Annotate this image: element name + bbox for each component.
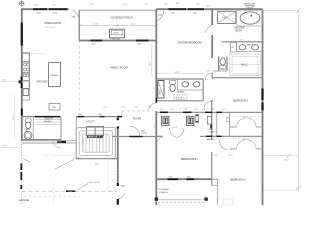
svg-text:11'-6": 11'-6"	[175, 72, 180, 74]
svg-text:2'-8": 2'-8"	[211, 109, 215, 111]
svg-text:+: +	[153, 62, 154, 64]
bath sink 1	[182, 82, 189, 87]
svg-text:BATH 2: BATH 2	[207, 138, 215, 141]
garage door dashed line	[22, 190, 117, 192]
kitchen dw box	[23, 89, 29, 96]
svg-text:8'-0": 8'-0"	[2, 80, 6, 82]
svg-text:5'-0": 5'-0"	[135, 106, 139, 108]
svg-text:WALK-IN: WALK-IN	[44, 120, 52, 123]
svg-text:COVERED PORCH: COVERED PORCH	[111, 17, 133, 20]
FIXTURES	[18, 0, 262, 205]
stair outer	[76, 128, 115, 159]
wall stub bedroom4 nw	[156, 135, 163, 137]
shower box	[218, 11, 236, 23]
bath2 inner box	[227, 118, 230, 122]
master vanity counter	[237, 42, 263, 52]
wire bath east wall	[202, 79, 204, 101]
window kitchen left 2	[21, 83, 23, 88]
closetB door arc left	[236, 139, 245, 149]
garage firewall door header	[57, 141, 66, 143]
powder door arc	[53, 140, 61, 148]
garage corner leader	[24, 159, 31, 163]
svg-text:CLOSET: CLOSET	[208, 131, 215, 133]
bath linen cabinet	[158, 81, 164, 99]
wire foyer south wall	[113, 136, 157, 138]
wire bath2 room east wall	[229, 112, 231, 136]
svg-text:ISLAND: ISLAND	[51, 74, 59, 77]
master bedroom entry door arc	[157, 11, 164, 22]
svg-text:UTILITY: UTILITY	[86, 120, 95, 123]
svg-text:2'-8": 2'-8"	[195, 109, 199, 111]
wire left exterior wall	[21, 8, 23, 141]
svg-text:2'-8": 2'-8"	[222, 109, 226, 111]
svg-text:3050: 3050	[171, 12, 175, 14]
svg-text:2868: 2868	[158, 14, 162, 16]
wire wc south wall	[213, 70, 227, 72]
garage wall bottom dark tick	[20, 185, 22, 189]
svg-text:FOYER: FOYER	[133, 118, 142, 121]
wire wc west wall	[218, 57, 220, 72]
foyer west stub	[121, 111, 123, 117]
foyer door arc	[130, 126, 140, 136]
wire powder south wall	[22, 139, 61, 141]
door arc hall to family room	[149, 103, 157, 111]
svg-text:5068: 5068	[58, 142, 62, 144]
DARK SEGMENTS (windows/door headers)	[21, 9, 262, 204]
dim line left garage horizontal	[0, 147, 21, 149]
svg-text:3050: 3050	[138, 44, 142, 46]
wire porch east edge	[212, 178, 218, 180]
wire garage left wall	[20, 141, 22, 205]
svg-text:3050: 3050	[187, 176, 191, 178]
garage dashed line 2	[24, 195, 80, 197]
wire right exterior wall	[262, 9, 264, 205]
wall closetB front left	[230, 148, 237, 150]
wire porch east vertical	[217, 179, 219, 205]
cased opening jambs hall	[196, 115, 199, 123]
dim line bath top	[157, 73, 203, 75]
porch post right	[204, 197, 207, 200]
tub faucet dot	[250, 15, 252, 17]
closet arcs bedroom4 right	[177, 128, 184, 137]
wire bath south wall	[156, 100, 203, 102]
svg-text:SHWR: SHWR	[222, 18, 228, 20]
wire porch roof edge	[79, 9, 157, 11]
door header hall wall 2	[217, 111, 223, 113]
svg-text:9'-0": 9'-0"	[145, 4, 149, 6]
kitchen dining soffit dashed	[22, 53, 45, 55]
svg-text:24'-8": 24'-8"	[123, 4, 128, 6]
porch steps dashed	[158, 201, 204, 203]
svg-text:DOOR: DOOR	[142, 133, 148, 135]
svg-text:WASH DRY: WASH DRY	[88, 136, 98, 139]
window family north 1	[91, 40, 103, 42]
master bath door arc	[205, 25, 213, 33]
door jamb garage door bottom	[117, 199, 119, 205]
svg-text:16070 OH DR: 16070 OH DR	[89, 182, 101, 184]
svg-text:KITCHEN: KITCHEN	[37, 81, 48, 84]
window family north 2	[136, 40, 149, 42]
svg-text:6'-0": 6'-0"	[243, 117, 247, 119]
wire utility north wall	[76, 116, 122, 118]
svg-text:5'-6": 5'-6"	[206, 70, 210, 72]
wire garage east wall lower	[117, 199, 119, 205]
WALLS	[21, 8, 263, 205]
door header hall to foyer	[155, 98, 157, 103]
svg-text:2868: 2868	[78, 114, 82, 116]
door header utility 1	[78, 116, 85, 118]
svg-text:GARAGE: GARAGE	[19, 199, 30, 202]
stair mid	[79, 131, 112, 156]
svg-text:12'-0": 12'-0"	[131, 24, 136, 26]
svg-text:14'-4": 14'-4"	[206, 6, 211, 8]
svg-text:COVERED: COVERED	[158, 189, 169, 191]
bath toilet tank	[170, 81, 176, 85]
window bedroom4 south 1	[168, 178, 179, 180]
wire wic south wall	[213, 77, 263, 79]
wire top master wall	[156, 8, 262, 10]
wire wc vanity north wall	[222, 41, 263, 43]
svg-text:3050: 3050	[169, 176, 173, 178]
refrigerator box	[49, 104, 60, 111]
stair treads	[85, 134, 87, 152]
porch ne corner line	[212, 185, 218, 187]
wire wc east wall	[226, 57, 228, 72]
svg-text:3050: 3050	[53, 12, 57, 14]
kitchen counter edge	[29, 53, 31, 101]
garage entry door arc	[118, 194, 125, 200]
svg-text:2868: 2868	[121, 186, 125, 188]
svg-text:5'-8": 5'-8"	[164, 4, 168, 6]
svg-text:PORCH: PORCH	[160, 192, 168, 194]
wire master suite west wall lower	[155, 111, 157, 205]
svg-text:6'-0": 6'-0"	[243, 139, 247, 141]
wire bath2 room west wall	[216, 112, 218, 136]
svg-text:5'-8": 5'-8"	[196, 4, 200, 6]
powder window left wall	[21, 109, 23, 116]
svg-text:5'-0": 5'-0"	[214, 155, 218, 157]
island	[49, 63, 61, 87]
svg-text:ATTIC ACC: ATTIC ACC	[176, 96, 186, 99]
svg-text:15'-0" X 13'-6": 15'-0" X 13'-6"	[45, 27, 56, 29]
svg-text:11'-0: 11'-0	[194, 159, 198, 161]
wall closetA front left	[230, 126, 237, 128]
door header bedroom3 wall 2	[217, 135, 222, 137]
door header utility 2	[100, 116, 105, 118]
cooktop burners	[24, 63, 27, 66]
wall closetA front right	[256, 126, 262, 128]
pantry wall dark segment	[35, 116, 60, 118]
svg-text:2868: 2868	[72, 17, 76, 19]
svg-text:5'-8": 5'-8"	[122, 106, 126, 108]
wire stair south wall	[76, 158, 118, 160]
svg-text:+: +	[153, 88, 154, 90]
kitchen cooktop box	[23, 62, 30, 73]
svg-text:MASTER BEDROOM: MASTER BEDROOM	[178, 42, 202, 45]
svg-text:VANITY: VANITY	[247, 43, 254, 46]
svg-text:12'-0": 12'-0"	[93, 24, 98, 26]
DIMS	[0, 9, 301, 191]
svg-text:19'-0": 19'-0"	[284, 160, 289, 162]
INTERIOR WALLS	[22, 42, 263, 205]
wardrobe box left bedroom4	[162, 116, 170, 125]
dim line left kitchen	[0, 81, 21, 83]
fireplace box	[110, 29, 125, 38]
svg-text:EGRESS: EGRESS	[246, 8, 254, 10]
svg-text:16'-8": 16'-8"	[95, 163, 100, 165]
wire hall east wall	[211, 101, 213, 140]
svg-text:RM: RM	[25, 131, 28, 133]
svg-text:6'-0": 6'-0"	[202, 109, 206, 111]
dim porch tick 1	[79, 24, 82, 27]
dim line porch	[80, 25, 156, 27]
door header foyer doors	[130, 136, 143, 138]
wire pantry east wall	[60, 117, 62, 140]
wire garage east wall	[117, 117, 119, 120]
door arc bedroom4 entry	[157, 137, 163, 145]
kitchen range box	[23, 81, 30, 89]
ac pad rect	[223, 199, 233, 205]
svg-text:12'-0": 12'-0"	[154, 123, 156, 128]
window dining top 1	[33, 8, 47, 10]
pantry shelves	[36, 119, 61, 121]
svg-text:5'-4": 5'-4"	[52, 5, 56, 7]
window master top 2	[188, 8, 204, 10]
svg-text:4'-0": 4'-0"	[240, 40, 244, 42]
door arc hall to bedroom2	[204, 101, 212, 109]
svg-text:PANTRY: PANTRY	[45, 118, 55, 121]
door header bedroom3 wall 1	[206, 135, 212, 137]
wire master bath west wall lower	[211, 35, 213, 58]
wire master suite west wall upper	[155, 9, 157, 103]
window garage left 1	[20, 164, 22, 171]
wire porch west wall	[78, 10, 80, 40]
svg-text:FIREPLACE: FIREPLACE	[111, 38, 121, 41]
porch post left	[155, 197, 158, 200]
wc toilet tank	[220, 66, 226, 70]
dim tick right bottom	[296, 186, 301, 190]
wire garage firewall line b	[22, 142, 76, 144]
garage slab leader	[55, 160, 74, 170]
wire master bath west wall segment	[211, 73, 213, 79]
door header foyer west	[118, 116, 123, 118]
master vanity sink 2	[252, 45, 259, 50]
door header hall wall 1	[205, 111, 212, 113]
closetA door arc right	[247, 118, 256, 128]
wire bedroom3 north wall	[200, 135, 263, 137]
window dining top 2	[49, 8, 68, 10]
wire top dining wall	[21, 8, 69, 10]
wire utility west wall	[75, 117, 77, 159]
north arrow	[19, 1, 23, 5]
linen hall closet	[207, 117, 211, 125]
tub oval	[240, 12, 260, 24]
window garage left 2	[20, 172, 22, 180]
window bedroom2 right wall	[261, 89, 263, 101]
bath toilet bowl	[170, 85, 175, 92]
window left wall tall	[21, 23, 23, 46]
svg-text:2468: 2468	[98, 114, 102, 116]
porch edge line	[158, 199, 204, 201]
door header bedroom4 north 2	[183, 111, 192, 113]
dim line top right extension	[263, 10, 299, 12]
garage driveway dotted centerline	[53, 181, 55, 205]
tub deck	[237, 10, 263, 26]
svg-text:2'-4": 2'-4"	[160, 109, 164, 111]
wire bedroom4 south wall	[156, 178, 212, 180]
dim vertical master west	[150, 45, 152, 75]
svg-text:2'-4": 2'-4"	[184, 109, 188, 111]
wire garage firewall line a	[22, 140, 76, 142]
wire bedroom4 north wall	[156, 111, 262, 113]
svg-text:W.I.C.: W.I.C.	[242, 64, 249, 67]
bath vanity counter	[178, 79, 204, 90]
svg-text:12'-2": 12'-2"	[3, 146, 8, 148]
svg-text:11'-0": 11'-0"	[34, 5, 39, 7]
svg-text:4" CONC: 4" CONC	[73, 158, 81, 160]
dim tick right top	[296, 9, 301, 13]
svg-text:12'-2": 12'-2"	[89, 4, 94, 6]
wic shelves dashed	[230, 54, 260, 76]
washer dryer boxes	[87, 127, 104, 136]
svg-text:BEDROOM 2: BEDROOM 2	[233, 100, 249, 103]
bath2 door arc	[220, 140, 228, 150]
dim line right mid tick	[287, 154, 291, 158]
closetB rod dashed	[233, 137, 260, 139]
wire master bath west wall	[211, 9, 213, 25]
wire bath south wall east part	[211, 100, 214, 102]
garage door leader	[78, 184, 89, 191]
window bedroom4 south 2	[187, 178, 195, 180]
range hood mark outside wall	[19, 80, 22, 83]
washer dryer label strip	[87, 136, 103, 139]
svg-text:FAMILY ROOM: FAMILY ROOM	[110, 66, 128, 70]
garage attic dotted outline h	[42, 155, 108, 157]
master vanity sink 1	[239, 45, 246, 50]
svg-text:5'-8": 5'-8"	[148, 106, 152, 108]
svg-text:2'-8": 2'-8"	[104, 106, 108, 108]
svg-text:10'-4": 10'-4"	[13, 115, 15, 120]
svg-text:3050: 3050	[37, 12, 41, 14]
dim porch tick 2	[116, 24, 119, 27]
svg-text:5'-0": 5'-0"	[171, 109, 175, 111]
closet arcs bedroom4 left	[170, 128, 177, 137]
wire pantry north wall	[22, 116, 61, 118]
powder sink	[24, 131, 32, 139]
svg-text:3050: 3050	[193, 12, 197, 14]
svg-text:BATH: BATH	[236, 30, 242, 33]
attic access dashed box	[174, 95, 187, 100]
door jambs garage upper door	[117, 118, 119, 120]
wall closetB front right	[256, 148, 262, 150]
svg-text:11'-6": 11'-6"	[229, 155, 234, 157]
wire bath north wall	[156, 78, 203, 80]
garage attic dotted outline v	[107, 156, 109, 190]
window kitchen left 1	[21, 77, 23, 81]
powder toilet bowl	[26, 122, 31, 128]
svg-text:W.C.: W.C.	[221, 68, 226, 70]
linen closet master bath	[230, 43, 236, 53]
svg-text:LINEN: LINEN	[160, 89, 162, 95]
svg-text:BEDROOM 3: BEDROOM 3	[231, 178, 247, 181]
svg-text:3050: 3050	[92, 44, 96, 46]
foyer arch dashed	[122, 110, 156, 112]
stair inner	[83, 134, 110, 152]
kitchen fridge box	[23, 54, 30, 62]
dim line right side	[297, 11, 299, 191]
wire powder east wall	[32, 117, 34, 140]
bath sink 2	[193, 82, 200, 87]
door header bedroom4 north 1	[160, 111, 168, 113]
door jamb garage door top	[117, 183, 119, 186]
wire hall east wall lower	[211, 152, 213, 186]
svg-text:10'-0": 10'-0"	[173, 127, 178, 129]
kitchen family divider dashed	[78, 41, 80, 112]
wic door arc	[205, 73, 212, 80]
dim porch tick 3	[155, 24, 158, 27]
dim line bedroom3 east	[263, 155, 299, 157]
wardrobe box right bedroom4	[187, 116, 195, 125]
kitchen sink box	[23, 73, 30, 81]
wc toilet bowl	[220, 58, 226, 65]
svg-text:16070: 16070	[22, 163, 24, 168]
closetB door arc right	[247, 139, 256, 149]
svg-text:19'-4": 19'-4"	[150, 61, 152, 66]
dining door arc	[71, 10, 79, 20]
svg-text:6'-4": 6'-4"	[176, 3, 180, 5]
wire family room north wall	[79, 40, 157, 42]
dim line bottom right of porch	[263, 189, 299, 191]
dim line left lower vertical	[14, 95, 16, 139]
shower X	[218, 11, 236, 23]
powder toilet tank	[25, 119, 31, 122]
closetA rod dashed	[233, 115, 260, 117]
garage door dark segment	[66, 190, 76, 192]
svg-text:LIN: LIN	[231, 47, 235, 49]
garage attic dotted v2	[113, 140, 115, 188]
svg-text:BATH: BATH	[178, 91, 184, 94]
closetA door arc left	[236, 118, 245, 128]
svg-text:42"FP: 42"FP	[114, 33, 120, 35]
window master top 1	[169, 8, 187, 10]
svg-text:DINING ROOM: DINING ROOM	[45, 22, 61, 25]
